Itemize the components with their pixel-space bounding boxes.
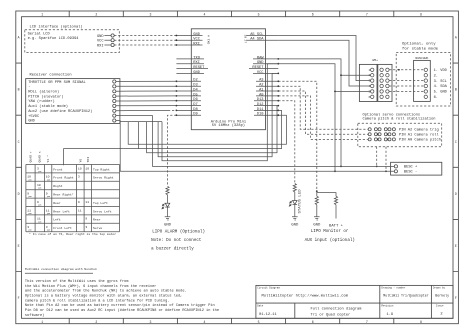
- svg-text:PITCH (elevator): PITCH (elevator): [28, 94, 63, 99]
- title block small labels: [257, 287, 445, 308]
- svg-text:3: 3: [149, 13, 151, 17]
- svg-text:A4 SDA: A4 SDA: [250, 38, 264, 42]
- svg-text:Full connection diagram: Full connection diagram: [311, 307, 363, 312]
- svg-text:BATT +: BATT +: [329, 225, 344, 229]
- svg-text:Rear Left: Rear Left: [53, 209, 70, 213]
- svg-text:Rear: Rear: [53, 201, 61, 205]
- svg-text:28: 28: [243, 35, 247, 39]
- svg-text:D3: D3: [193, 84, 197, 88]
- wire join: [137, 122, 139, 149]
- resistor R4 batt: [334, 196, 337, 205]
- svg-text:RESET: RESET: [193, 66, 205, 70]
- WM+ left header circles: [371, 68, 374, 98]
- svg-text:GND: GND: [313, 223, 321, 227]
- nunchuk dashed enclosure: [396, 53, 450, 107]
- svg-text:-: -: [28, 86, 30, 90]
- svg-text:D9: D9: [193, 113, 197, 117]
- svg-text:11: 11: [85, 200, 89, 204]
- svg-text:PIN A2 Camera trig: PIN A2 Camera trig: [399, 128, 439, 133]
- title block frame: [256, 285, 453, 318]
- servo junction dots: [377, 133, 379, 135]
- wire aux2 to D8 dashed optional: [116, 110, 168, 112]
- svg-text:VCC: VCC: [257, 71, 264, 75]
- svg-text:1.9: 1.9: [387, 313, 394, 317]
- svg-text:10: 10: [78, 166, 82, 170]
- pin D7: [176, 105, 201, 107]
- svg-text:e.g. Sparkfun LCD-09394: e.g. Sparkfun LCD-09394: [28, 36, 80, 41]
- wire bend bar: [120, 121, 162, 123]
- svg-text:9: 9: [37, 200, 39, 204]
- svg-text:RESET: RESET: [252, 66, 264, 70]
- dashed wire D9 to lipo alarm: [168, 115, 177, 186]
- svg-text:pwm: pwm: [47, 196, 50, 198]
- zone letters left: [18, 36, 20, 301]
- svg-text:Front Left: Front Left: [53, 226, 72, 230]
- wire branch GND to WM+ GND: [335, 90, 371, 92]
- svg-text:camera pitch & roll stabilizat: camera pitch & roll stabilization & a LC…: [25, 298, 170, 303]
- pin GND right: [253, 63, 278, 65]
- pin RXI top-left: [176, 44, 202, 46]
- svg-text:5V 16Mhz (328p): 5V 16Mhz (328p): [212, 123, 245, 128]
- svg-text:WM+: WM+: [372, 58, 378, 62]
- wire D10 to motor table: [128, 115, 286, 144]
- svg-text:Issue: Issue: [436, 305, 444, 308]
- svg-text:3: 3: [46, 225, 48, 229]
- svg-text:F: F: [18, 296, 20, 300]
- svg-text:software): software): [25, 313, 44, 318]
- rotated column headers: [29, 151, 90, 162]
- svg-text:A0: A0: [259, 93, 263, 97]
- pin RAW right: [253, 58, 278, 60]
- pin RXI left: [176, 63, 204, 65]
- svg-text:Servo: Servo: [93, 226, 102, 230]
- resistor R1 lipo alarm: [166, 186, 169, 195]
- dashed wire servo power to +5V rail: [376, 147, 378, 167]
- svg-text:1. VDD: 1. VDD: [434, 69, 448, 73]
- dashed wire A1 to camera roll: [278, 91, 368, 134]
- svg-text:* In case of an Y4, Rear right: * In case of an Y4, Rear right is the to…: [29, 232, 116, 236]
- svg-text:BESC -: BESC -: [404, 171, 417, 175]
- svg-text:Rear Right*: Rear Right*: [53, 193, 74, 197]
- svg-text:D10: D10: [257, 113, 264, 117]
- svg-text:D5: D5: [193, 93, 197, 97]
- wire D12 wrap: [147, 106, 279, 153]
- svg-text:Note: Do not connect: Note: Do not connect: [151, 239, 202, 243]
- svg-text:7: 7: [366, 13, 368, 17]
- pin A2: [256, 85, 278, 87]
- svg-text:Drawn by: Drawn by: [433, 287, 446, 290]
- svg-text:Top Left: Top Left: [93, 201, 108, 205]
- svg-text:Left: Left: [53, 218, 61, 222]
- svg-text:2: 2: [95, 13, 97, 17]
- svg-text:Servo Right: Servo Right: [93, 176, 114, 180]
- WM+ right header circles: [380, 68, 389, 98]
- pin A1: [256, 90, 278, 92]
- svg-text:11: 11: [37, 217, 41, 221]
- svg-text:A1: A1: [259, 88, 264, 92]
- wire roll to D4: [116, 90, 176, 92]
- svg-text:9: 9: [27, 192, 29, 196]
- svg-text:C: C: [455, 140, 457, 144]
- svg-text:5. GND: 5. GND: [434, 91, 448, 95]
- dashed wire LCD RXI to arduino: [114, 44, 176, 46]
- svg-text:Drawing - number: Drawing - number: [381, 287, 406, 290]
- svg-text:This version of the MultiWii u: This version of the MultiWii uses the gy…: [25, 279, 129, 284]
- svg-text:pwm: pwm: [47, 179, 50, 181]
- svg-text:10: 10: [85, 166, 89, 170]
- svg-text:the Wii Motion Plus (WM+), 6 i: the Wii Motion Plus (WM+), 6 input chann…: [25, 284, 157, 289]
- svg-text:RXI: RXI: [193, 61, 200, 65]
- pin D6: [176, 100, 201, 102]
- pin A5 SCL top-right: [247, 35, 279, 37]
- svg-text:Aux2 (use #define RCAUXPIN12): Aux2 (use #define RCAUXPIN12): [28, 109, 92, 114]
- node lipo monitor tap: [316, 190, 318, 192]
- svg-text:MultiWii Tri/Quadcopter: MultiWii Tri/Quadcopter: [383, 294, 429, 298]
- svg-text:8: 8: [420, 320, 422, 324]
- wire GND to GND rail: [278, 64, 335, 172]
- svg-text:Date: Date: [257, 305, 264, 308]
- svg-text:1: 1: [41, 320, 43, 324]
- svg-text:Y6: Y6: [78, 159, 82, 163]
- BESC box: [391, 162, 442, 175]
- svg-text:TRI: TRI: [86, 157, 90, 163]
- svg-text:pwm: pwm: [38, 221, 41, 223]
- svg-text:2.: 2.: [434, 74, 438, 78]
- svg-text:C: C: [18, 140, 20, 144]
- svg-text:2: 2: [440, 313, 442, 317]
- svg-text:3: 3: [85, 225, 87, 229]
- node VDD junction: [398, 69, 400, 71]
- pwm sub labels: [29, 171, 51, 232]
- svg-text:GND: GND: [193, 33, 200, 37]
- svg-text:A: A: [18, 36, 20, 40]
- svg-text:RXI: RXI: [97, 44, 104, 48]
- svg-text:B: B: [18, 88, 20, 92]
- svg-text:4. SDA: 4. SDA: [434, 85, 448, 89]
- BESC - circle: [394, 170, 397, 173]
- svg-text:A3: A3: [259, 79, 263, 83]
- svg-text:LCD interface (optional): LCD interface (optional): [30, 24, 83, 29]
- dashed wire WM+ to nunchuk GND: [389, 90, 424, 92]
- svg-text:3: 3: [78, 175, 80, 179]
- svg-text:5: 5: [258, 320, 260, 324]
- svg-text:MultiWii connection diagram wi: MultiWii connection diagram with Nunchuk: [25, 267, 97, 271]
- pin D5: [176, 95, 201, 97]
- svg-text:GND: GND: [257, 61, 264, 65]
- wire RAW to +5V rail: [278, 59, 341, 166]
- wire D11 to motor table: [64, 110, 282, 165]
- LED D2 status: [293, 201, 298, 205]
- svg-text:3: 3: [149, 320, 151, 324]
- svg-text:and the accelerometer from the: and the accelerometer from the Nunchuk (…: [25, 289, 187, 294]
- dashed wire LCD GND to arduino: [114, 35, 176, 37]
- svg-text:BESC +: BESC +: [404, 166, 417, 170]
- svg-text:Pin D8 or D12 can be used as A: Pin D8 or D12 can be used as Aux2 RC inp…: [25, 308, 219, 313]
- svg-text:VCC: VCC: [97, 40, 104, 44]
- receiver connector circles: [113, 80, 116, 83]
- svg-text:+5VDC: +5VDC: [28, 115, 40, 119]
- svg-text:Optional, only: Optional, only: [402, 42, 436, 47]
- dashed wire A3 to lipo monitor: [278, 81, 317, 191]
- svg-text:D2: D2: [193, 79, 197, 83]
- ground lipo monitor: [314, 217, 320, 220]
- svg-text:AUX input (optional): AUX input (optional): [305, 238, 355, 243]
- pin D13: [254, 100, 278, 102]
- svg-text:Top Right: Top Right: [93, 167, 110, 171]
- svg-text:4: 4: [204, 13, 206, 17]
- dashed wire A0 to camera pitch: [278, 96, 368, 139]
- servo connector circles row A2: [368, 128, 371, 131]
- svg-text:D: D: [18, 192, 20, 196]
- svg-text:F: F: [455, 296, 457, 300]
- WM+ right board: [378, 64, 392, 101]
- wire aux1 to D7: [116, 105, 176, 107]
- svg-text:ROLL (aileron): ROLL (aileron): [28, 90, 59, 95]
- svg-text:A5 SCL: A5 SCL: [250, 33, 263, 37]
- wire throttle to D2: [116, 80, 176, 82]
- svg-text:9: 9: [85, 217, 87, 221]
- servo dashed enclosure: [358, 123, 442, 146]
- svg-text:Y4 *: Y4 *: [46, 155, 50, 163]
- svg-text:STATUS LED: STATUS LED: [299, 189, 303, 214]
- pin GND top-left: [176, 35, 202, 37]
- svg-text:GND: GND: [28, 120, 35, 124]
- svg-text:6.: 6.: [434, 96, 438, 100]
- pin RESET left: [176, 68, 208, 70]
- pin D8: [176, 109, 201, 111]
- pin D12: [254, 105, 278, 107]
- dashed wire servo power to GND rail: [385, 147, 387, 172]
- svg-text:Camera pitch & roll stabilizat: Camera pitch & roll stabilization: [363, 116, 436, 121]
- motor table grid: [26, 165, 120, 232]
- svg-text:6: 6: [312, 13, 314, 17]
- pin D11: [254, 109, 278, 111]
- svg-text:# TXO: # TXO: [207, 35, 211, 44]
- zone letters right: [455, 36, 457, 301]
- ground lipo alarm: [165, 217, 171, 220]
- svg-text:pwm: pwm: [29, 196, 32, 198]
- svg-text:D7: D7: [193, 103, 197, 107]
- svg-text:pwm: pwm: [29, 179, 32, 181]
- servo connector circles row A1: [368, 133, 371, 136]
- svg-text:pwm: pwm: [47, 213, 50, 215]
- svg-text:Revision: Revision: [381, 305, 394, 308]
- svg-text:TXO: TXO: [193, 56, 200, 60]
- svg-text:10: 10: [27, 175, 31, 179]
- svg-text:THROTTLE OR PPM SUM SIGNAL: THROTTLE OR PPM SUM SIGNAL: [28, 81, 86, 85]
- svg-text:2: 2: [95, 320, 97, 324]
- svg-text:4: 4: [204, 320, 206, 324]
- svg-text:Receiver connection: Receiver connection: [30, 72, 72, 77]
- svg-text:PIN A0 Camera pitch: PIN A0 Camera pitch: [399, 138, 441, 143]
- pin GND left: [176, 72, 204, 74]
- svg-text:Berkely: Berkely: [435, 294, 449, 298]
- svg-text:E: E: [455, 244, 457, 248]
- svg-text:Servo Left: Servo Left: [93, 209, 112, 213]
- dashed wire WM+ to nunchuk SDA: [389, 85, 424, 87]
- svg-text:GND: GND: [193, 71, 200, 75]
- resistor R3 lipo monitor: [315, 196, 318, 205]
- WM+ left board: [359, 64, 377, 101]
- pin A4 SDA top-right: [247, 39, 279, 41]
- pin A3: [256, 80, 278, 82]
- pin RESET right: [249, 68, 278, 70]
- pin VCC right: [253, 72, 278, 74]
- wire A4 SDA to WM+: [278, 40, 370, 86]
- svg-text:D11: D11: [257, 108, 264, 112]
- pin VCC top-left: [176, 39, 202, 41]
- svg-text:8: 8: [420, 13, 422, 17]
- receiver box: [26, 79, 120, 124]
- svg-text:1: 1: [41, 13, 43, 17]
- svg-text:pwm: pwm: [38, 205, 41, 207]
- svg-text:Optional is a battery voltage: Optional is a battery voltage monitor wi…: [25, 294, 182, 299]
- BESC + circle: [394, 165, 397, 168]
- svg-text:LIPO Monitor or: LIPO Monitor or: [311, 229, 349, 234]
- svg-text:Right: Right: [53, 184, 62, 188]
- nunchuk pin labels: [434, 69, 448, 100]
- pin TXO left: [176, 58, 204, 60]
- pin D2: [176, 80, 201, 82]
- svg-text:Rear: Rear: [93, 218, 101, 222]
- dashed wire A2 to camera trig: [278, 86, 368, 129]
- svg-text:RXI: RXI: [193, 42, 200, 46]
- svg-text:Front: Front: [53, 167, 62, 171]
- svg-text:3: 3: [27, 225, 29, 229]
- svg-text:9: 9: [78, 200, 80, 204]
- wire pitch to D5: [116, 95, 176, 97]
- svg-text:RAW: RAW: [257, 56, 264, 60]
- svg-text:for stable mode: for stable mode: [402, 46, 439, 51]
- servo connector circles row A0: [368, 138, 371, 141]
- svg-text:A2: A2: [259, 84, 263, 88]
- svg-text:11: 11: [46, 208, 50, 212]
- svg-text:GND: GND: [97, 35, 104, 39]
- svg-text:D12: D12: [257, 103, 264, 107]
- wire to batt resistor: [317, 193, 336, 197]
- svg-text:pwm: pwm: [29, 213, 32, 215]
- svg-text:7: 7: [366, 320, 368, 324]
- svg-text:GND: GND: [164, 223, 172, 227]
- svg-text:QUAD x: QUAD x: [38, 151, 42, 162]
- resistor R2 status led: [293, 184, 296, 193]
- WM+ pin numbers rotated: [369, 68, 371, 99]
- svg-text:5: 5: [258, 13, 260, 17]
- svg-text:D: D: [455, 192, 457, 196]
- table cells: [27, 166, 113, 230]
- svg-text:MultiWiiCopter http://www.mult: MultiWiiCopter http://www.multiwii.com: [262, 294, 349, 299]
- wire yaw to D6: [116, 100, 176, 102]
- svg-text:Aux1 (stable mode): Aux1 (stable mode): [28, 104, 68, 109]
- svg-text:D8: D8: [193, 108, 197, 112]
- svg-text:D13: D13: [257, 98, 264, 102]
- svg-text:6: 6: [369, 95, 371, 99]
- svg-text:01-12-11: 01-12-11: [259, 313, 277, 317]
- pin D9: [176, 114, 201, 116]
- svg-text:6: 6: [312, 320, 314, 324]
- svg-text:3. SCL: 3. SCL: [434, 80, 447, 84]
- svg-text:Front Right: Front Right: [53, 176, 74, 180]
- pin D4: [176, 90, 201, 92]
- svg-text:10: 10: [46, 175, 50, 179]
- svg-text:D4: D4: [193, 88, 198, 92]
- svg-text:a buzzer directly: a buzzer directly: [151, 247, 194, 252]
- zone numbers bottom: [41, 320, 422, 324]
- svg-text:QUAD +: QUAD +: [29, 151, 33, 162]
- wire receiver +5V to rail: [116, 116, 394, 167]
- svg-text:pwm: pwm: [38, 171, 41, 173]
- svg-text:3: 3: [37, 166, 39, 170]
- svg-text:10: 10: [37, 183, 41, 187]
- dashed wire WM+ to nunchuk VDD: [389, 69, 424, 71]
- pin D10: [254, 114, 278, 116]
- svg-text:PIN A1 Camera roll: PIN A1 Camera roll: [399, 133, 440, 138]
- dashed wire WM+ to nunchuk SCL: [389, 80, 424, 82]
- zone numbers top: [41, 13, 422, 17]
- svg-text:Serial LCD: Serial LCD: [28, 32, 51, 37]
- svg-text:VCC: VCC: [193, 38, 200, 42]
- svg-text:NUNCHUK: NUNCHUK: [415, 56, 428, 60]
- LED D1 lipo alarm: [165, 203, 170, 207]
- wire spare to D3: [116, 85, 176, 87]
- svg-text:9: 9: [46, 192, 48, 196]
- svg-text:D6: D6: [193, 98, 197, 102]
- svg-text:11: 11: [27, 208, 31, 212]
- svg-text:pwm: pwm: [38, 188, 41, 190]
- svg-text:YAW (rudder): YAW (rudder): [28, 99, 55, 104]
- svg-text:27: 27: [243, 39, 247, 43]
- svg-text:B: B: [455, 88, 457, 92]
- wire branch +5V to WM+ VDD: [341, 74, 371, 76]
- wire GND wrap: [162, 64, 278, 161]
- serial LCD dashed box: [25, 30, 120, 53]
- dashed wire D13 to status LED: [278, 101, 295, 184]
- svg-text:11: 11: [78, 208, 82, 212]
- ground status led: [292, 217, 298, 220]
- svg-text:Note that Pin A2 can be used a: Note that Pin A2 can be used as battery …: [25, 303, 215, 308]
- svg-text:E: E: [18, 244, 20, 248]
- svg-text:Circuit Diagram: Circuit Diagram: [257, 287, 280, 290]
- svg-text:GND: GND: [291, 223, 299, 227]
- svg-text:Tri or Quad copter: Tri or Quad copter: [311, 312, 351, 317]
- pin D3: [176, 85, 201, 87]
- wire VCC wrap: [158, 73, 278, 156]
- svg-text:A: A: [455, 36, 457, 40]
- op-amp U1 Arduino Pro Mini body: [191, 29, 265, 130]
- svg-text:1: 1: [369, 68, 371, 72]
- svg-text:LIPO ALARM (Optional): LIPO ALARM (Optional): [152, 230, 205, 235]
- wire A5 SCL to WM+: [278, 36, 370, 81]
- notes paragraph: [25, 279, 219, 318]
- dashed wire LCD VCC to arduino: [114, 39, 176, 41]
- pin A0: [256, 95, 278, 97]
- wire receiver GND to rail: [116, 121, 394, 172]
